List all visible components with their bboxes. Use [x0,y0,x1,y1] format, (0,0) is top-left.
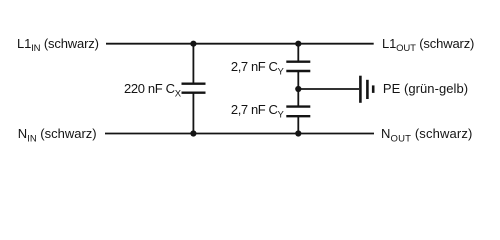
wire top line L1 [106,43,374,45]
node L1 IN label [17,36,99,54]
svg-text:2,7 nF CY: 2,7 nF CY [231,59,285,77]
node N IN label [18,126,97,144]
ground PE earth symbol [360,76,373,103]
node L1 OUT label [382,36,474,54]
capacitor CY top value label [231,59,285,77]
node junction CY top [295,41,301,47]
node junction CX bottom [190,130,196,136]
node junction CY bottom [295,130,301,136]
wire bottom line N [105,133,374,135]
capacitor CY bottom value label [231,102,285,120]
capacitor CY bottom [286,107,310,117]
node junction PE [295,86,301,92]
svg-text:2,7 nF CY: 2,7 nF CY [231,102,285,120]
node junction CX top [190,41,196,47]
wire CY branch upper [297,44,299,61]
node PE label [383,81,468,96]
wire CX branch lower [192,94,194,134]
node N OUT label [381,126,473,144]
svg-text:PE (grün-gelb): PE (grün-gelb) [383,81,468,96]
svg-text:NIN (schwarz): NIN (schwarz) [18,126,97,144]
wire PE lead [298,88,359,90]
svg-text:L1OUT (schwarz): L1OUT (schwarz) [382,36,474,54]
svg-text:NOUT (schwarz): NOUT (schwarz) [381,126,473,144]
wire CY branch middle [297,72,299,106]
capacitor CY top [286,62,310,71]
wire CX branch upper [192,44,194,83]
capacitor CX value label [124,81,182,99]
capacitor CX [182,84,206,93]
svg-text:220 nF CX: 220 nF CX [124,81,182,99]
svg-text:L1IN (schwarz): L1IN (schwarz) [17,36,99,54]
wire CY branch lower [297,117,299,134]
